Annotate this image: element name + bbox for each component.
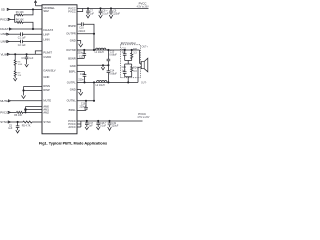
capacitor C9 polarized [109,9,113,15]
node C3 junction [26,54,27,55]
node snub bottom [128,82,129,83]
svg-text:C1 1uF: C1 1uF [18,37,26,40]
wire R1 to SD [23,9,33,15]
node OUTPL tie [93,82,94,83]
svg-text:PVCC: PVCC [0,110,8,114]
svg-text:R1 10K: R1 10K [16,11,24,14]
ground C5 [16,130,20,133]
wire LINP right [22,33,42,35]
svg-text:C21: C21 [122,47,127,50]
node rail b1 [86,120,87,121]
svg-text:RINN: RINN [43,84,50,88]
node AM2 junction [25,112,26,113]
capacitor C7 [86,9,90,15]
svg-text:0.68uF: 0.68uF [109,53,117,56]
node SD/R1 junction [32,9,33,10]
svg-text:3.3: 3.3 [133,70,137,73]
ground C9 [109,15,113,18]
svg-text:0.68uF: 0.68uF [109,72,117,75]
node BSNL top [85,100,86,101]
capacitor C1 [21,32,23,36]
wire FAULTZ [12,28,42,30]
svg-text:OUTPL: OUTPL [67,80,76,84]
svg-text:OUTNL: OUTNL [67,99,77,103]
wire AM1 [26,109,43,111]
svg-text:220uF: 220uF [112,124,119,127]
node rail b3 [109,120,110,121]
svg-text:+: + [105,122,107,125]
node rail j2 [100,8,101,9]
wire R4 to FAULTZ [23,22,33,29]
wire snub mid bottom [125,77,132,83]
node C14 bottom [108,82,109,83]
svg-text:LINP: LINP [43,33,49,37]
node C5 junction [17,121,18,122]
svg-text:1uF: 1uF [29,57,34,60]
svg-text:C2 1uF: C2 1uF [18,44,26,47]
node BSPL bottom [84,82,85,83]
node rail j1 [87,8,88,9]
capacitor C3 [25,54,29,64]
inductor L2 [97,81,107,83]
IC U1 class-D amplifier body [42,5,77,134]
svg-text:OUTPR: OUTPR [66,32,75,36]
resistor R21 snubber [131,50,133,61]
wire BSPR row [77,23,81,25]
supply arrow to MODSEL [34,1,36,6]
wire LINN right [22,41,42,43]
svg-text:100K: 100K [18,64,23,66]
svg-text:LINN: LINN [43,37,49,41]
capacitor C15 BSPL bootstrap [83,72,87,83]
capacitor C17 [85,121,89,127]
svg-text:GVDD: GVDD [43,55,51,59]
node divider top [15,54,16,55]
capacitor C10 [82,22,84,26]
ground C7 [86,15,90,18]
svg-text:R6 10K: R6 10K [14,114,22,117]
ground divider [13,78,17,81]
node RIN junction [23,90,24,91]
svg-text:R5 4.7K: R5 4.7K [22,124,31,127]
svg-text:MUTE: MUTE [43,99,51,103]
wire OUTPR [77,33,94,35]
ground C8 [99,15,103,18]
svg-text:220nF: 220nF [80,106,87,109]
svg-text:SD: SD [1,8,5,12]
svg-text:220nF: 220nF [78,78,85,81]
svg-text:GND: GND [70,64,76,68]
svg-text:220nF: 220nF [78,51,85,54]
wire OUTNR rail [77,49,140,51]
wire AM0 [26,106,43,108]
svg-text:PVCC: PVCC [138,112,146,116]
node OUT+ tie [93,49,94,50]
svg-text:PVCC: PVCC [139,2,147,6]
wire PVCC bottom stubs [77,121,81,127]
svg-text:1uF: 1uF [8,127,13,130]
node AM1 junction [25,109,27,111]
wire BSPL stub [77,71,85,73]
wire SYNC right [32,121,42,123]
wire speaker bottom [138,67,141,82]
svg-text:LINP: LINP [1,32,7,36]
wire RIN to ground [23,87,25,96]
node BSNR top [84,49,85,50]
svg-text:BSNR: BSNR [68,57,76,61]
capacitor C12 BSNR bootstrap [83,50,87,58]
wire GVDD row [10,53,42,55]
wire GND right1 stub [77,41,81,44]
wire LINP left [9,33,21,35]
capacitor C14 [107,65,111,82]
svg-text:1uF: 1uF [90,12,95,15]
node C14 top [108,65,109,66]
wire speaker top [140,50,142,63]
wire PVCC2 stub [77,9,83,12]
wire RINN [24,86,43,88]
capacitor C24 snubber [123,64,127,77]
wire MODSEL [36,5,43,7]
node OUTNL junction [93,100,94,101]
resistor R24 snubber [131,64,133,77]
svg-text:LINN: LINN [1,40,7,44]
svg-text:1nF: 1nF [122,51,127,54]
svg-text:AVCC: AVCC [68,125,75,129]
ground C17 [85,127,89,130]
svg-text:0.1uF: 0.1uF [100,124,107,127]
node gnd mid [102,65,103,66]
wire GND mid row [77,64,108,66]
node rail j3 [110,8,111,9]
capacitor C16 BSNL bootstrap [84,101,88,111]
node snub top1 [124,49,125,50]
resistor R9 20K [14,71,16,78]
ground C19 [108,127,112,130]
svg-text:SYNC: SYNC [0,120,8,124]
resistor R5 [23,121,32,123]
svg-text:OUT+: OUT+ [142,46,149,48]
svg-text:C3: C3 [21,57,25,60]
resistor R8 100K [14,54,16,71]
node snub top2 [131,49,132,50]
capacitor C21 snubber [123,50,127,61]
svg-text:4.5V to 26V: 4.5V to 26V [137,116,149,119]
ground mid [101,65,105,70]
EMI snubber dashed box [120,45,140,78]
wire PVCC rail top [77,8,149,10]
inductor L1 [96,48,106,50]
ground C18 [96,127,100,130]
wire SDZ [9,8,42,10]
svg-text:GND: GND [70,38,76,42]
svg-text:0.1uF: 0.1uF [102,12,109,15]
capacitor C19 polarized [108,121,112,127]
svg-text:FAULTZ: FAULTZ [43,28,53,32]
ground GND right3 [79,92,83,95]
svg-text:C15: C15 [80,73,85,76]
ground C3 [25,64,29,67]
svg-text:MUTE: MUTE [0,99,8,103]
wire PVCC rail bottom [81,120,143,122]
node OUTPR junction [93,33,94,34]
ground GND right1 [79,44,83,47]
wire PLIMIT stub [35,51,42,54]
node FAULTZ junction [32,28,33,29]
svg-text:R4 10K: R4 10K [16,19,24,22]
wire snub mid top [125,61,132,65]
svg-text:SYNC: SYNC [43,120,51,124]
svg-text:Fig1. Typical PBTL Mode Applic: Fig1. Typical PBTL Mode Applications [39,142,107,146]
svg-text:L1 10uH: L1 10uH [95,51,104,54]
speaker [141,62,144,69]
svg-text:BSPR: BSPR [68,24,75,28]
svg-text:20K: 20K [18,75,22,77]
svg-text:PLIMIT: PLIMIT [43,50,52,54]
resistor R1 [16,14,23,16]
svg-text:EMI Snubber: EMI Snubber [121,41,136,45]
ground RIN [22,95,26,98]
svg-text:AM2: AM2 [43,110,49,114]
wire BSPR to tie [83,24,94,50]
capacitor C5 [16,122,20,130]
svg-text:BSNL: BSNL [69,108,77,112]
svg-text:OUTNR: OUTNR [66,48,76,52]
svg-text:1uF: 1uF [89,124,94,127]
svg-text:PVCC: PVCC [0,17,8,21]
wire GND right3 stub [77,90,81,93]
svg-text:BSPL: BSPL [69,70,76,74]
capacitor C13 [107,50,111,65]
wire BSNL stub [77,109,86,111]
svg-text:RINP: RINP [43,88,50,92]
wire OUTNL [77,100,94,102]
svg-text:220uF: 220uF [113,12,120,15]
svg-text:GAIN/SLV: GAIN/SLV [43,69,55,73]
wire OUTPL rail [77,81,138,83]
capacitor C18 [96,121,100,127]
node rail b2 [98,120,99,121]
svg-text:L2 10uH: L2 10uH [96,84,105,87]
svg-text:PVCC: PVCC [68,9,76,13]
svg-text:3.3: 3.3 [133,51,137,54]
node C13 junction [108,49,109,50]
wire AM2 [23,111,42,113]
wire OUTNL tie [93,82,95,100]
resistor R6 [10,111,23,113]
wire AM bus [25,107,27,113]
wire PVCC [10,18,14,20]
svg-text:VLIM: VLIM [1,52,8,56]
svg-text:1nF: 1nF [122,69,127,72]
svg-text:SDZ: SDZ [43,9,49,13]
svg-text:4.5V to 26V: 4.5V to 26V [137,6,149,9]
wire MUTE [11,100,42,102]
svg-text:GND: GND [43,75,49,79]
wire LINN left [9,41,21,43]
svg-text:GND: GND [70,88,76,92]
capacitor C8 [99,9,103,15]
resistor R4 [16,21,23,23]
svg-text:OUT-: OUT- [141,82,147,84]
svg-text:220nF: 220nF [78,30,85,33]
wire BSNR stub [77,57,84,59]
wire SYNC left [10,121,23,123]
capacitor C2 [21,40,23,44]
wire RINP [24,90,43,92]
wire PVCC to R1 [15,15,17,22]
